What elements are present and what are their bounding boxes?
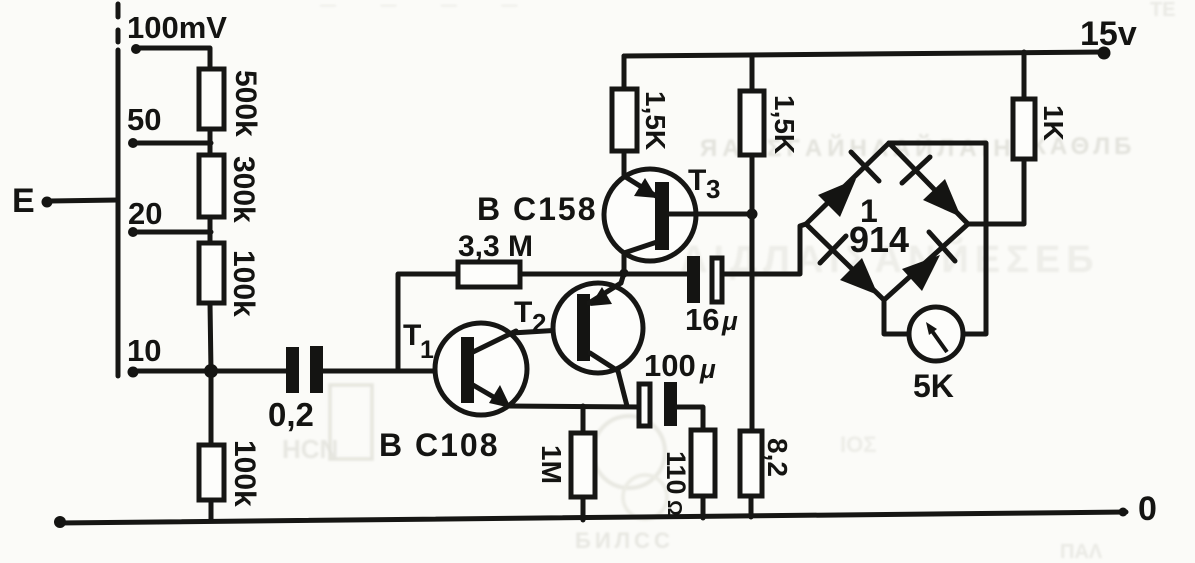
node ground rail left terminal [54,516,66,528]
svg-text:1,5K: 1,5K [640,91,671,150]
wire 10 tap to junction [133,369,211,374]
svg-text:3: 3 [706,174,720,204]
wire junction to coupling cap [211,369,286,374]
wire 1,5K left to +15v rail [622,56,627,89]
svg-text:5K: 5K [913,368,954,404]
wire selector bus (dashed top) [116,4,121,376]
wire T1 emitter node line [507,406,641,407]
label 100µ [644,348,716,384]
label 110 ohm [661,451,691,516]
svg-text:E: E [12,182,35,220]
node 0 terminal [1119,490,1157,528]
transistor T1 BC108 [435,323,527,415]
node C junction [620,269,629,278]
node 20 tap [128,196,162,237]
wire E to selector bus [50,200,118,201]
wire bridge top corner to meter right side [889,143,986,334]
label 16µ [685,302,738,337]
node 10 tap [127,333,161,378]
svg-text:1,5K: 1,5K [769,95,800,154]
wire 8,2 to ground rail [749,496,754,517]
svg-text:8,2: 8,2 [762,438,793,477]
svg-text:1K: 1K [1038,105,1069,141]
wire junction down to 100k lower [209,371,214,445]
wire 100k lower to ground rail [209,500,214,521]
wire bridge right corner to 1K [968,159,1024,224]
wire 20 tap to divider [133,230,211,235]
resistor 100k upper [199,243,224,303]
label T2 [514,296,546,338]
wire 1M top to emitter line [581,406,586,433]
node 15v terminal [1080,15,1137,60]
resistor 1,5K right [740,91,764,155]
diode D4 lower-right [902,232,955,291]
svg-text:0,2: 0,2 [268,396,314,433]
diode bridge 1N914 [806,143,968,300]
meter 5K [909,307,963,361]
node T3 base junction [747,209,758,220]
capacitor 0,2 [286,346,323,393]
wire 100µ to 110 resistor [677,407,703,430]
resistor 300k [199,155,224,217]
wire T2 emitter up to node C [621,273,624,283]
svg-text:0: 0 [1138,490,1157,528]
wire 3,3M left leg down to T1 base [398,274,458,371]
transistor T3 BC158 [604,169,696,261]
wire rail to 1,5K right [750,55,755,91]
node 100mV tap [127,10,227,54]
svg-text:μ: μ [699,354,716,384]
node 50 tap [127,102,161,148]
diode D3 lower-left [820,236,878,295]
label T3 [688,164,720,204]
svg-text:μ: μ [721,306,738,336]
svg-text:1: 1 [420,336,434,364]
wire T3 emitter up to R 1,5K left [622,151,627,176]
capacitor 100µ [639,382,677,426]
wire ground rail 0 [58,512,1126,523]
svg-text:3,3 M: 3,3 M [458,230,533,263]
svg-text:110: 110 [661,451,691,495]
wire 3,3M right to node C [520,272,624,277]
svg-text:ΤΕ: ΤΕ [1150,0,1176,21]
svg-text:2: 2 [532,308,546,338]
wire node C to 16µ [624,272,687,277]
svg-text:100: 100 [644,348,696,383]
wire bridge bottom corner to meter left side [884,299,910,334]
svg-text:ΠΑΛ: ΠΑΛ [1060,541,1103,563]
svg-text:10: 10 [127,333,161,368]
resistor 1M [571,433,595,497]
wire T3 base to bias node [669,212,752,217]
wire bias chain 1,5K right down to 8,2 [750,155,755,431]
svg-text:16: 16 [685,302,719,337]
label T1 [403,319,434,364]
diode D2 upper-right [902,157,961,217]
wire +15v supply rail [624,52,1104,56]
resistor 500k [199,69,224,129]
wire T2 collector down to emitter line [618,371,627,406]
diode D1 upper-left [818,152,879,217]
capacitor 16µ [687,256,722,303]
svg-text:100k: 100k [227,250,260,317]
wire 100mV tap to divider top [136,48,210,70]
node junction 10/input [204,364,218,378]
wire divider link 500k-300k [208,129,213,155]
resistor 1K [1013,99,1035,159]
svg-text:300k: 300k [227,156,260,223]
wire 100k to 10-junction [210,303,211,371]
resistor 110 [691,430,715,496]
wire T1 collector to T2 base [512,329,578,333]
svg-text:T: T [403,319,421,352]
svg-text:15v: 15v [1080,15,1137,53]
svg-text:100mV: 100mV [127,10,227,45]
svg-text:914: 914 [849,219,909,260]
svg-text:T: T [514,296,532,329]
svg-text:БИЛСС: БИЛСС [575,528,674,553]
svg-text:B C108: B C108 [379,427,500,463]
svg-text:500k: 500k [229,70,262,137]
svg-text:Ω: Ω [663,500,685,516]
svg-text:T: T [688,164,706,197]
resistor 8,2 [740,431,762,496]
wire 1K to +15v rail [1022,52,1027,99]
resistor 100k lower [199,445,224,500]
resistor 1,5K left [612,89,637,151]
svg-text:50: 50 [127,102,161,137]
wire 50 tap to divider [133,141,211,146]
label 1N914 [849,193,909,260]
svg-text:1M: 1M [536,445,567,484]
wire node C up to T3 collector [622,252,627,273]
svg-text:B C158: B C158 [477,191,598,227]
node E input terminal [12,182,53,220]
svg-text:— — — —: — — — — [320,0,537,14]
wire cap to T1 base [323,369,461,374]
svg-text:100k: 100k [228,440,261,507]
resistor 3,3M [458,262,520,287]
svg-text:20: 20 [128,196,162,231]
svg-text:НСΝ: НСΝ [282,434,338,464]
wire 1M to ground rail [581,497,586,520]
wire divider link 300k-100k [208,217,213,243]
transistor T2 [553,283,643,373]
wire 110 to ground rail [701,496,706,518]
svg-text:ΙΟΣ: ΙΟΣ [840,432,876,457]
wire 16µ to bridge left corner [722,224,806,274]
